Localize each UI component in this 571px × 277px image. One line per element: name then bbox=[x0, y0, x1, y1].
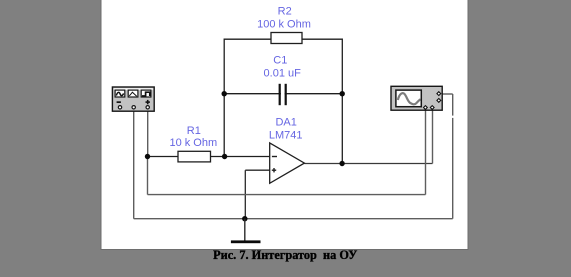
svg-text:0.01 uF: 0.01 uF bbox=[264, 68, 302, 80]
svg-text:R2: R2 bbox=[278, 6, 292, 18]
generator sine button bbox=[115, 90, 125, 97]
svg-text:R1: R1 bbox=[187, 125, 201, 137]
wire: C1 row between nodes bbox=[224, 93, 342, 95]
wire: input net horizontal run bbox=[148, 194, 426, 196]
wire: oscilloscope ground riser to rail (lower segment) bbox=[452, 118, 454, 219]
oscilloscope ground terminal bbox=[437, 92, 441, 96]
svg-text:10 k Ohm: 10 k Ohm bbox=[169, 137, 217, 149]
generator minus terminal bbox=[118, 106, 121, 109]
op-amp non-inverting input plus sign bbox=[272, 168, 276, 172]
node: output junction bbox=[339, 161, 344, 166]
svg-text:C1: C1 bbox=[273, 55, 287, 67]
generator plus terminal bbox=[146, 106, 149, 109]
svg-text:100 k Ohm: 100 k Ohm bbox=[257, 19, 311, 31]
svg-text:Рис. 7. Интегратор на ОУ: Рис. 7. Интегратор на ОУ bbox=[213, 248, 357, 262]
oscilloscope sine trace bbox=[398, 93, 421, 104]
wire: ground rail bbox=[134, 218, 453, 220]
wire: generator plus terminal riser to R1 left node bbox=[147, 110, 149, 157]
node: C1 left junction bbox=[222, 91, 227, 96]
oscilloscope channel B terminal bbox=[430, 106, 434, 110]
wire: non-inverting input stub bbox=[245, 169, 269, 171]
white schematic canvas bbox=[101, 0, 468, 250]
svg-text:DA1: DA1 bbox=[275, 116, 296, 128]
wire: oscilloscope channel riser to output net bbox=[432, 110, 434, 164]
node: C1 right junction bbox=[340, 91, 345, 96]
oscilloscope screen bbox=[396, 90, 421, 107]
oscilloscope trigger terminal bbox=[437, 99, 441, 103]
wire: oscilloscope channel riser to input net bbox=[425, 110, 427, 195]
oscilloscope XSC1 bbox=[391, 86, 442, 110]
svg-text:LM741: LM741 bbox=[269, 129, 303, 141]
generator plus label bbox=[146, 100, 150, 104]
wire: oscilloscope ground riser to rail (upper segment) bbox=[452, 94, 454, 116]
wire: oscilloscope ground stub bbox=[442, 93, 453, 95]
resistor R2 bbox=[271, 33, 302, 44]
op-amp inverting input minus sign bbox=[272, 156, 277, 158]
wire: feedback top loop (R2 branch) bbox=[224, 39, 342, 163]
wire: R1 row from left node to op-amp inverting input bbox=[148, 156, 270, 158]
node: R1 right junction (inverting input) bbox=[222, 154, 227, 159]
ground symbol bbox=[231, 219, 261, 244]
oscilloscope channel A terminal bbox=[424, 106, 428, 110]
node: ground rail junction bbox=[242, 216, 247, 221]
node: R1 left junction (input net) bbox=[145, 154, 150, 159]
function generator G1 bbox=[112, 87, 154, 111]
wire: op-amp output row to oscilloscope riser bbox=[304, 163, 432, 165]
wire: non-inverting input drop to ground rail bbox=[244, 170, 246, 219]
wire: input net riser below R1 left node bbox=[147, 157, 149, 195]
generator minus label bbox=[117, 101, 121, 103]
generator common terminal bbox=[132, 106, 135, 109]
generator square button bbox=[141, 90, 151, 97]
capacitor C1 bbox=[279, 84, 287, 105]
generator triangle button bbox=[128, 90, 138, 97]
op-amp U1 triangle bbox=[270, 143, 305, 183]
wire: generator common terminal riser bbox=[133, 110, 135, 219]
resistor R1 bbox=[178, 151, 211, 162]
